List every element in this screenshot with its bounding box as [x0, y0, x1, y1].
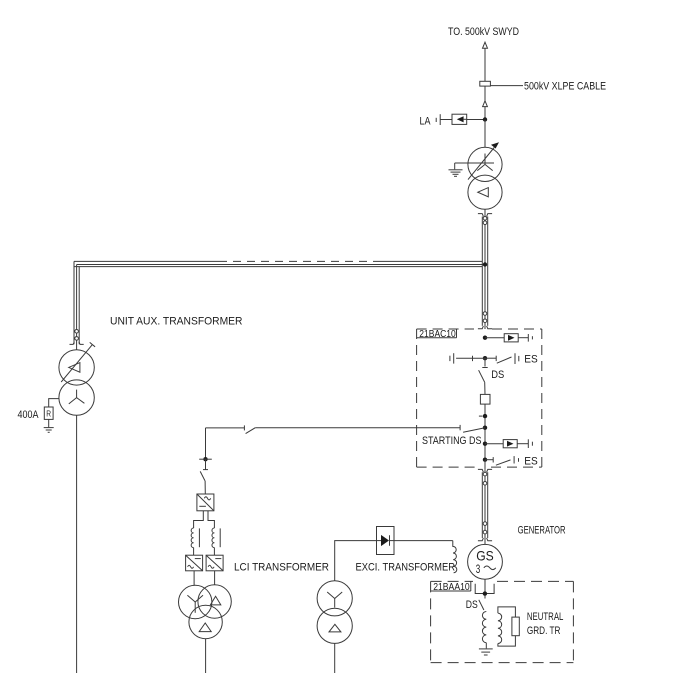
wye symbol T02	[69, 390, 85, 404]
earthing switch ES lower	[485, 455, 538, 467]
enclosure 21BAC10 dashed box	[417, 329, 542, 467]
circuit breaker GCB	[480, 394, 490, 404]
surge arrester A1	[485, 334, 532, 342]
wire T03 down	[205, 639, 207, 673]
bus duct horizontal to UAT	[74, 261, 485, 266]
ground NGT	[479, 649, 493, 655]
bus flare bottom segment B	[478, 538, 492, 541]
wye symbol T03	[187, 595, 203, 613]
svg-text:LA: LA	[420, 115, 432, 127]
svg-text:3: 3	[476, 562, 481, 576]
wire T04 down	[334, 643, 336, 673]
transformer T04 LV winding	[317, 608, 352, 643]
transformer T01 HV winding	[468, 147, 502, 181]
surge arrester LA	[452, 114, 467, 124]
transformer T01 LV winding	[468, 175, 502, 209]
wye symbol T01	[477, 154, 492, 171]
svg-text:GRD. TR: GRD. TR	[527, 625, 561, 637]
delta symbol T04	[329, 624, 341, 632]
delta symbol T01	[478, 188, 489, 197]
resistor NGT loading	[512, 617, 519, 636]
insulator rings segment A	[483, 217, 487, 323]
svg-text:500kV XLPE CABLE: 500kV XLPE CABLE	[524, 81, 606, 93]
wire box exit	[484, 460, 486, 470]
wire T02 neutral	[49, 399, 59, 407]
converter U3	[206, 555, 223, 571]
svg-text:NEUTRAL: NEUTRAL	[527, 611, 564, 623]
svg-text:LCI TRANSFORMER: LCI TRANSFORMER	[234, 562, 329, 574]
reactor L1	[191, 528, 199, 548]
wire converters to LCI transformer	[194, 571, 215, 586]
wire LCI drop	[205, 428, 207, 459]
bus duct segment B	[482, 469, 487, 544]
node bus top junction	[483, 336, 487, 340]
svg-text:EXCI. TRANSFORMER: EXCI. TRANSFORMER	[356, 562, 456, 574]
bus flare bottom segment A	[478, 326, 492, 329]
tap changer arrow T02	[61, 342, 95, 382]
CT bracket generator neutral	[475, 584, 494, 594]
arrow cable direction	[483, 101, 488, 107]
cable termination	[480, 81, 491, 86]
transformer T03 winding 1	[179, 585, 212, 618]
NGT primary winding	[482, 612, 486, 643]
wire LA lead left	[440, 119, 452, 121]
svg-text:R: R	[46, 410, 51, 419]
earthing switch ES right upper	[485, 353, 538, 365]
node starting DS junction	[483, 426, 487, 430]
node bus tap	[483, 262, 487, 266]
wire T01 neutral	[455, 163, 494, 169]
wire resistor to ground	[48, 419, 50, 427]
tap changer arrow T01	[468, 142, 499, 179]
coil exciter stub	[453, 541, 457, 573]
wye symbol T04	[327, 592, 342, 608]
bus flare UAT drop	[70, 342, 84, 345]
svg-text:21BAA10: 21BAA10	[433, 582, 470, 593]
wire starting feed horizontal	[206, 425, 461, 433]
ground T02 neutral	[44, 428, 54, 433]
wire NGT to ground	[485, 643, 487, 649]
svg-text:DS: DS	[466, 599, 478, 611]
svg-text:ES: ES	[524, 455, 538, 467]
wire LA lead right	[467, 119, 485, 121]
wire generator neutral	[484, 579, 486, 598]
label 21BAC10	[417, 329, 457, 340]
transformer T02 HV winding	[59, 350, 94, 385]
bus duct UAT drop	[74, 261, 79, 344]
wire converter to reactors	[194, 511, 215, 528]
disconnect switch DS neutral	[466, 599, 484, 611]
disconnect switch LCI	[200, 459, 208, 494]
node generator neutral	[483, 591, 487, 595]
disconnect switch STARTING DS	[422, 425, 485, 447]
insulator rings segment B	[483, 472, 487, 534]
node CT junction	[479, 414, 487, 418]
wire T02 feeder down	[76, 415, 78, 673]
enclosure 21BAA10 dashed box	[431, 581, 574, 662]
bus flare top segment B	[478, 469, 492, 472]
node ES junction upper	[483, 356, 487, 360]
svg-text:DS: DS	[491, 369, 504, 381]
ground T01 neutral	[449, 170, 463, 177]
delta symbol T03 lower	[199, 623, 211, 632]
node ES junction lower	[483, 458, 487, 462]
svg-text:400A: 400A	[18, 409, 40, 421]
transformer T03 winding 3	[189, 605, 222, 638]
svg-text:GENERATOR: GENERATOR	[518, 524, 566, 536]
svg-text:21BAC10: 21BAC10	[419, 329, 456, 340]
reactor L2	[212, 528, 220, 548]
wire swyd riser	[484, 48, 486, 81]
ground LA earth bars	[436, 114, 440, 125]
delta symbol T02	[69, 363, 80, 373]
delta symbol T03 upper	[210, 596, 220, 605]
node LCI tap	[199, 457, 212, 461]
converter U2	[186, 555, 203, 571]
wire to main transformer	[484, 120, 486, 148]
label 21BAA10	[431, 581, 471, 593]
svg-text:STARTING DS: STARTING DS	[422, 435, 482, 447]
transformer T02 LV winding	[59, 380, 94, 415]
arrow to switchyard	[483, 42, 488, 48]
node arrester junction lower	[483, 442, 487, 446]
svg-text:TO. 500kV SWYD: TO. 500kV SWYD	[448, 26, 519, 38]
earthing switch ES left	[450, 353, 485, 363]
wire to UAT	[76, 344, 78, 350]
bus duct segment A	[482, 214, 487, 329]
transformer T04 HV winding	[317, 581, 352, 616]
insulator rings UAT drop	[75, 330, 79, 341]
wire reactors to converters	[194, 548, 215, 556]
wire cable run	[484, 86, 486, 119]
svg-text:GS: GS	[476, 547, 494, 563]
bus flare top segment A	[478, 214, 492, 217]
converter U1	[197, 494, 214, 511]
generator GS	[468, 544, 503, 579]
wire T01 to bus	[484, 209, 486, 214]
disconnect switch DS main	[479, 358, 505, 394]
transformer T03 winding 2	[198, 585, 231, 618]
surge arrester A2	[485, 439, 532, 448]
diode rectifier	[377, 527, 395, 555]
wire NGT secondary loop	[498, 607, 516, 646]
wire cable label leader	[490, 85, 523, 87]
wire breaker down	[484, 404, 486, 460]
resistor R 400A	[44, 407, 53, 419]
svg-text:ES: ES	[524, 353, 538, 365]
node LA junction	[483, 117, 487, 121]
wire exciter feed	[335, 541, 453, 581]
svg-text:UNIT AUX. TRANSFORMER: UNIT AUX. TRANSFORMER	[110, 316, 243, 328]
NGT secondary winding	[498, 613, 502, 643]
